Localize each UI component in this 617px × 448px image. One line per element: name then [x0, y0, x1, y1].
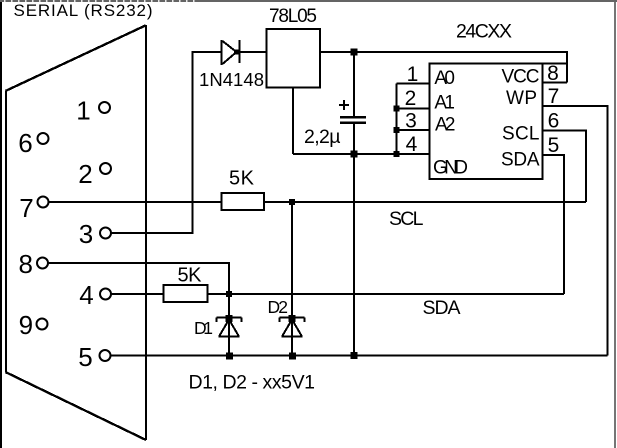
diode D3 cathode bar [239, 40, 241, 63]
DB9 connector left edge [5, 91, 7, 373]
DB9 pin 6 circle [38, 133, 49, 144]
regulator 78L05 box [267, 29, 321, 88]
zener D2 bar dot [289, 315, 296, 322]
junction bus pin3 [394, 127, 400, 133]
wire SCL riser to chip pin 6 [543, 131, 587, 203]
wire DB9 pin8 to SDA junction [48, 263, 229, 294]
svg-text:1: 1 [407, 63, 419, 86]
zener D1 bar dot [226, 315, 233, 322]
zener D1 triangle [219, 320, 240, 337]
svg-text:2: 2 [78, 159, 92, 189]
IC U1 24CXX box [430, 64, 543, 180]
window left border [0, 2, 2, 448]
junction bus pin4/ground rail [394, 151, 400, 157]
wire pin3 stub [397, 129, 430, 131]
svg-text:6: 6 [18, 128, 32, 158]
wire SDA row right of R2 [208, 293, 565, 295]
wire ground bottom rail from DB9 pin5 [111, 355, 608, 357]
wire pin3 to diode anode [111, 52, 221, 233]
resistor R1 5K [222, 193, 265, 210]
DB9 pin 4 circle [100, 289, 111, 300]
svg-text:24CXX: 24CXX [456, 21, 512, 43]
svg-text:2: 2 [405, 87, 417, 110]
svg-text:78L05: 78L05 [269, 6, 317, 27]
wire SDA row left of R2 [111, 293, 164, 295]
svg-text:5K: 5K [178, 265, 203, 287]
wire 78L05 ground lead [292, 88, 294, 155]
svg-text:SDA: SDA [501, 150, 540, 171]
wire pin8 stub top [543, 63, 568, 65]
junction cap/ground rail [351, 151, 358, 158]
DB9 pin 5 circle [100, 350, 111, 361]
diode D3 triangle sides [223, 41, 237, 64]
wire capacitor top branch [353, 52, 355, 116]
window top border [0, 0, 617, 2]
svg-text:2,2µ: 2,2µ [304, 126, 341, 148]
wire SCL row left of R1 [49, 201, 222, 203]
svg-text:1N4148: 1N4148 [199, 69, 264, 90]
DB9 pin 7 circle [38, 197, 49, 208]
wire pin8 stub bottom [543, 82, 568, 84]
junction D1/bottom rail [226, 353, 233, 360]
resistor R2 5K [164, 285, 208, 302]
svg-text:5: 5 [78, 342, 92, 372]
wire pin1 stub [397, 83, 430, 85]
diode D3 1N4148 anode bar [221, 40, 223, 65]
svg-text:D1, D2 - xx5V1: D1, D2 - xx5V1 [189, 372, 316, 394]
DB9 connector right edge [145, 25, 147, 440]
wire SDA riser to chip pin 5 [543, 155, 565, 294]
wire pin2 stub [397, 108, 430, 110]
svg-text:SCL: SCL [502, 124, 540, 145]
svg-text:D1: D1 [194, 318, 213, 338]
wire WP riser to chip pin 7 [543, 106, 608, 356]
svg-text:SCL: SCL [389, 208, 424, 230]
junction bus pin2 [394, 106, 400, 112]
DB9 connector bottom diagonal [6, 372, 146, 440]
wire D2 branch [291, 202, 293, 356]
svg-text:3: 3 [405, 110, 417, 133]
diode D3 apex dot [234, 50, 239, 55]
junction SCL/D2 [289, 199, 295, 205]
svg-text:3: 3 [79, 219, 93, 249]
svg-text:D2: D2 [268, 297, 289, 317]
svg-text:A2: A2 [435, 115, 456, 136]
DB9 pin 3 circle [100, 228, 111, 239]
svg-text:WP: WP [506, 88, 537, 109]
svg-text:4: 4 [79, 280, 93, 310]
junction VCC/cap [351, 49, 358, 56]
svg-text:7: 7 [19, 193, 33, 223]
svg-text:4: 4 [406, 133, 418, 156]
zener D1 cathode bar with hooks [217, 318, 242, 323]
svg-text:9: 9 [19, 310, 33, 340]
svg-text:7: 7 [548, 85, 560, 108]
DB9 pin 2 circle [100, 163, 111, 174]
DB9 pin 1 circle [99, 102, 110, 113]
junction SDA/pin8/D1 [226, 291, 232, 297]
svg-text:5: 5 [548, 134, 560, 157]
zener D2 cathode bar with hooks [280, 318, 305, 323]
svg-text:6: 6 [548, 110, 560, 133]
wire diode cathode to 78L05 input [240, 51, 267, 53]
svg-text:A0: A0 [434, 68, 455, 89]
svg-text:8: 8 [547, 62, 559, 85]
capacitor plus sign [339, 104, 349, 106]
junction ground vertical/bottom rail [351, 352, 358, 359]
svg-text:1: 1 [76, 96, 90, 126]
junction D2/bottom rail [289, 353, 296, 360]
zener D2 triangle [282, 320, 303, 337]
svg-text:GND: GND [433, 158, 468, 179]
svg-text:8: 8 [19, 249, 33, 279]
wire SCL row right of R1 [264, 201, 586, 203]
window right border [614, 2, 616, 448]
wire address bus vertical [396, 84, 398, 155]
DB9 pin 8 circle [37, 258, 48, 269]
svg-text:SERIAL (RS232): SERIAL (RS232) [14, 1, 153, 20]
wire capacitor bottom to ground rail and down to bottom rail [353, 124, 355, 356]
capacitor C1 plates [340, 117, 366, 123]
wire ground rail to chip [293, 153, 430, 155]
svg-text:VCC: VCC [502, 67, 540, 88]
wire D1 branch [228, 294, 230, 356]
DB9 connector top diagonal [6, 25, 146, 91]
wire 78L05 output to VCC pin 8 [320, 52, 567, 83]
svg-text:A1: A1 [434, 93, 455, 114]
svg-text:SDA: SDA [423, 297, 461, 319]
DB9 pin 9 circle [37, 319, 48, 330]
svg-text:5K: 5K [229, 168, 255, 190]
